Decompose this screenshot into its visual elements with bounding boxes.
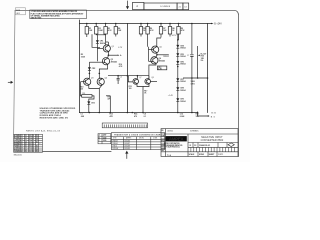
svg-text:10: 10 bbox=[29, 148, 31, 150]
terminal +12V arrow bbox=[198, 55, 200, 56]
diode CR3 bbox=[87, 101, 90, 104]
label +12V stack bbox=[201, 53, 207, 62]
label 12K pair bbox=[191, 81, 195, 85]
svg-text:.068: .068 bbox=[80, 116, 84, 118]
svg-text:2N3644: 2N3644 bbox=[112, 143, 117, 145]
wire bottom 0V rail bbox=[79, 112, 197, 114]
svg-text:SEE NOTES: SEE NOTES bbox=[31, 17, 42, 19]
svg-text:1N914: 1N914 bbox=[180, 100, 185, 103]
diode CR4 bbox=[176, 45, 179, 48]
diode CR7 bbox=[176, 78, 179, 81]
capacitor C9 label under rail bbox=[144, 114, 147, 118]
svg-text:1N914: 1N914 bbox=[180, 63, 185, 66]
resistor R7 bbox=[159, 24, 162, 38]
svg-text:19: 19 bbox=[32, 137, 34, 139]
svg-text:1N914: 1N914 bbox=[180, 55, 185, 58]
wire link R2-R3 bottoms bbox=[96, 33, 105, 36]
revision table bbox=[98, 134, 111, 144]
wire diode column bbox=[177, 34, 179, 113]
svg-text:12: 12 bbox=[29, 151, 31, 153]
svg-text:39: 39 bbox=[25, 151, 27, 153]
svg-text:013-688: 013-688 bbox=[124, 146, 130, 148]
svg-text:36: 36 bbox=[25, 146, 27, 148]
svg-text:NONE: NONE bbox=[199, 154, 205, 156]
wire Q7 base feed bbox=[128, 76, 132, 82]
parts table bottom-left bbox=[14, 134, 43, 152]
transistor Q2 bbox=[99, 55, 109, 78]
svg-text:8802-01 A: 8802-01 A bbox=[14, 153, 23, 156]
conversion chart bbox=[111, 133, 164, 150]
wire Q5 base vertical bbox=[148, 47, 150, 62]
svg-text:13: 13 bbox=[21, 137, 23, 139]
label left rail TP bbox=[81, 54, 86, 58]
svg-text:55: 55 bbox=[36, 141, 38, 143]
svg-text:06: 06 bbox=[29, 139, 31, 141]
svg-text:013-686: 013-686 bbox=[124, 140, 130, 142]
svg-text:18: 18 bbox=[21, 148, 23, 150]
svg-text:26: 26 bbox=[32, 151, 34, 153]
svg-text:013-687: 013-687 bbox=[124, 143, 130, 145]
resistor R1 bbox=[85, 24, 88, 38]
node A wire bbox=[108, 54, 117, 56]
svg-text:09: 09 bbox=[29, 146, 31, 148]
wire +24V top bus bbox=[79, 23, 211, 25]
svg-text:20: 20 bbox=[21, 151, 23, 153]
revision box A bbox=[133, 2, 144, 9]
svg-text:CR2: CR2 bbox=[92, 68, 96, 70]
svg-text:CONVERTER 8802: CONVERTER 8802 bbox=[201, 139, 224, 142]
svg-text:23: 23 bbox=[32, 146, 34, 148]
svg-text:1N914: 1N914 bbox=[180, 47, 185, 50]
microfilm up arrow bbox=[126, 153, 128, 159]
diode CR9 bbox=[176, 98, 179, 101]
terminal B +24V arrowhead bbox=[211, 23, 214, 25]
svg-text:ENG: ENG bbox=[161, 141, 164, 143]
wire Q2 base feed bbox=[89, 61, 102, 63]
svg-text:C7: C7 bbox=[187, 55, 189, 57]
svg-text:5%: 5% bbox=[201, 60, 204, 62]
svg-text:B +24V: B +24V bbox=[214, 24, 222, 26]
svg-text:CR3: CR3 bbox=[91, 102, 95, 104]
wire CR1 branch bbox=[96, 35, 98, 61]
revision strip cell 2 bbox=[183, 3, 189, 10]
label R17 bbox=[144, 91, 147, 95]
svg-text:SCALE: SCALE bbox=[189, 153, 196, 156]
svg-text:17: 17 bbox=[21, 146, 23, 148]
junction dots bottom rail bbox=[89, 112, 91, 114]
transistor Q5 bbox=[149, 38, 162, 55]
label R16 bbox=[119, 64, 123, 68]
svg-text:TRANSISTOR & DIODE CONVERSION: TRANSISTOR & DIODE CONVERSION CHART bbox=[114, 133, 162, 136]
revision strip long box bbox=[144, 3, 177, 10]
diamond mark bbox=[228, 143, 234, 147]
svg-text:Q7: Q7 bbox=[139, 77, 141, 79]
sheet bottom edge left segment bbox=[43, 151, 112, 153]
svg-text:DR: DR bbox=[161, 130, 163, 132]
svg-text:G 789012: G 789012 bbox=[14, 148, 20, 150]
node Q5/Q6 wire bbox=[157, 54, 169, 56]
label Q6 bbox=[159, 58, 165, 62]
capacitor C5 bbox=[117, 76, 119, 79]
resistor R2 bbox=[95, 24, 98, 35]
svg-text:56: 56 bbox=[36, 146, 38, 148]
svg-text:1395: 1395 bbox=[103, 140, 107, 142]
svg-text:Q8: Q8 bbox=[151, 77, 153, 79]
wire mid vertical bbox=[126, 24, 128, 113]
svg-text:REL: REL bbox=[161, 150, 164, 152]
svg-text:2N3643: 2N3643 bbox=[112, 140, 117, 142]
svg-text:52: 52 bbox=[36, 135, 38, 137]
diode CR6 bbox=[176, 61, 179, 64]
junction dots Q3/Q4 collectors bbox=[89, 73, 91, 75]
svg-text:1346012-01: 1346012-01 bbox=[199, 144, 211, 147]
microfilm down arrow bbox=[126, 1, 129, 9]
resistor R30 label under rail bbox=[196, 114, 200, 118]
notes block lower-left bbox=[40, 108, 76, 120]
schematic wires bbox=[79, 20, 211, 116]
transistor Q1 bbox=[97, 42, 110, 55]
wire Q3 base down bbox=[81, 82, 82, 96]
svg-text:20: 20 bbox=[32, 139, 34, 141]
svg-text:1287404: 1287404 bbox=[167, 131, 173, 133]
svg-text:16: 16 bbox=[21, 143, 23, 145]
svg-text:Q3: Q3 bbox=[91, 78, 94, 80]
wire mid horizontal right bbox=[183, 77, 208, 79]
title block header marks bbox=[167, 130, 200, 133]
resistor R4 bbox=[114, 24, 117, 37]
svg-text:E 567890: E 567890 bbox=[14, 143, 20, 145]
wire CR2 branch bbox=[88, 62, 90, 78]
svg-text:22: 22 bbox=[32, 143, 34, 145]
svg-text:12: 12 bbox=[21, 135, 23, 137]
notes box top-left bbox=[30, 10, 87, 19]
svg-text:2N3643: 2N3643 bbox=[111, 60, 117, 63]
sheet border top edge and rounded right edge bbox=[15, 10, 238, 156]
svg-text:1N914: 1N914 bbox=[180, 89, 185, 92]
svg-text:2N3643: 2N3643 bbox=[159, 60, 165, 63]
svg-text:PARTS LIST A-B, 8802-01-03: PARTS LIST A-B, 8802-01-03 bbox=[26, 129, 61, 132]
resistor R3 bbox=[104, 24, 107, 45]
svg-text:Q1: Q1 bbox=[111, 46, 114, 48]
svg-text:CHK: CHK bbox=[161, 136, 164, 138]
corner tag box bbox=[15, 8, 25, 15]
svg-text:21: 21 bbox=[32, 141, 34, 143]
logo address lines bbox=[164, 142, 183, 149]
revision strip text bbox=[136, 5, 187, 8]
bottom row cells bbox=[198, 152, 217, 157]
svg-text:53: 53 bbox=[36, 137, 38, 139]
resistor R11 horizontal bbox=[82, 95, 92, 98]
svg-text:013-689: 013-689 bbox=[124, 148, 130, 150]
svg-text:COML: COML bbox=[153, 138, 157, 140]
svg-text:18: 18 bbox=[32, 135, 34, 137]
sheet border left edge bbox=[14, 10, 15, 134]
transistor Q6 bbox=[149, 55, 158, 79]
microfilm left arrow bbox=[8, 81, 13, 84]
resistor R5 bbox=[139, 24, 142, 37]
svg-text:31: 31 bbox=[25, 135, 27, 137]
svg-text:35: 35 bbox=[25, 143, 27, 145]
wire right vertical bbox=[207, 24, 209, 113]
svg-text:59: 59 bbox=[36, 151, 38, 153]
revision strip cell 1 bbox=[177, 3, 183, 10]
transistor Q8 bbox=[143, 76, 157, 87]
diode CR8 bbox=[176, 87, 179, 90]
transistor Q7 bbox=[133, 76, 143, 113]
svg-text:B ±V: B ±V bbox=[211, 112, 216, 114]
svg-text:15: 15 bbox=[21, 141, 23, 143]
svg-text:1N914: 1N914 bbox=[112, 146, 117, 148]
label R10 under Q3 base bbox=[80, 86, 83, 90]
svg-text:470: 470 bbox=[134, 115, 137, 118]
capacitor C12 label under rail bbox=[180, 114, 185, 118]
node A label bbox=[118, 55, 120, 56]
svg-text:12K1: 12K1 bbox=[191, 84, 195, 86]
svg-text:T-1.4: T-1.4 bbox=[167, 154, 171, 157]
svg-text:1N914: 1N914 bbox=[100, 42, 105, 45]
svg-text:1-C-45894 E: 1-C-45894 E bbox=[160, 6, 171, 8]
svg-text:100K: 100K bbox=[81, 56, 86, 58]
svg-text:100K: 100K bbox=[98, 30, 103, 32]
svg-text:0.068: 0.068 bbox=[180, 116, 185, 118]
svg-text:08: 08 bbox=[29, 143, 31, 145]
wire R2 elbow bbox=[92, 34, 100, 47]
svg-text:B -V: B -V bbox=[211, 116, 216, 118]
svg-text:Q4: Q4 bbox=[105, 78, 108, 80]
logo AMPEX bbox=[165, 136, 186, 141]
svg-text:C5: C5 bbox=[120, 77, 122, 79]
svg-text:RESISTORS ARE 1/4W, 5%: RESISTORS ARE 1/4W, 5% bbox=[40, 117, 69, 120]
svg-text:1 OF 1: 1 OF 1 bbox=[218, 154, 223, 156]
left column labels bbox=[161, 130, 164, 152]
wire R11 to rail bbox=[89, 96, 94, 113]
svg-text:57: 57 bbox=[36, 148, 38, 150]
terminal -V arrowhead bbox=[206, 115, 208, 117]
capacitor C7 bbox=[190, 54, 193, 56]
number row cells bbox=[193, 143, 227, 148]
resistor R9 bbox=[177, 24, 180, 41]
diode CR2 bbox=[88, 67, 91, 70]
title block outer bbox=[161, 129, 238, 157]
wire mid horizontal bbox=[108, 75, 149, 77]
resistor R14 label under rail bbox=[134, 113, 137, 118]
resistor R12 horizontal bbox=[157, 66, 166, 70]
svg-text:2N3643: 2N3643 bbox=[163, 56, 169, 58]
wire left vertical rail bbox=[78, 20, 80, 113]
svg-text:+1.4V: +1.4V bbox=[168, 95, 174, 97]
resistor R8 bbox=[168, 24, 171, 37]
svg-text:AMPEX: AMPEX bbox=[169, 136, 184, 141]
svg-text:33: 33 bbox=[25, 139, 27, 141]
svg-text:07: 07 bbox=[29, 141, 31, 143]
notes text bbox=[31, 10, 85, 19]
resistor R6 bbox=[146, 24, 149, 47]
svg-text:SHEET: SHEET bbox=[209, 154, 216, 156]
svg-text:100: 100 bbox=[129, 88, 132, 90]
svg-text:05: 05 bbox=[29, 137, 31, 139]
svg-text:1N914: 1N914 bbox=[180, 80, 185, 83]
diode CR5 bbox=[176, 53, 179, 56]
tick strip bbox=[102, 123, 147, 128]
transistor Q3 bbox=[81, 78, 100, 88]
capacitor C1 label under rail bbox=[80, 114, 84, 118]
comb row bbox=[191, 147, 235, 151]
svg-text:14.7V: 14.7V bbox=[172, 35, 178, 37]
svg-text:32: 32 bbox=[25, 137, 27, 139]
label R15 bbox=[129, 86, 132, 90]
wire right mid vertical bbox=[197, 46, 199, 78]
svg-text:37: 37 bbox=[25, 148, 27, 150]
wire -V terminal lead bbox=[198, 112, 209, 116]
resistor R13 label under rail bbox=[110, 114, 114, 118]
label Q2 bbox=[111, 59, 117, 63]
svg-text:Q5: Q5 bbox=[159, 46, 162, 48]
svg-text:F 678901: F 678901 bbox=[14, 146, 20, 148]
label R18 bbox=[108, 96, 112, 100]
diode CR1 bbox=[96, 40, 99, 43]
wire R13 lead bbox=[109, 96, 111, 113]
svg-text:0.1: 0.1 bbox=[144, 116, 147, 118]
capacitor C7 wire bbox=[191, 24, 193, 55]
transistor Q4 bbox=[97, 78, 104, 112]
svg-text:R11: R11 bbox=[82, 93, 85, 95]
